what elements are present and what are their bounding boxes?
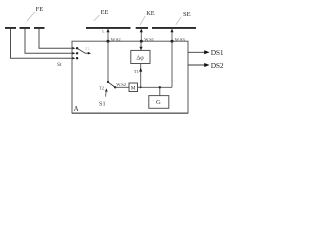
svg-text:DS1: DS1 (211, 48, 224, 57)
svg-text:T2: T2 (99, 85, 105, 90)
svg-text:EE: EE (101, 9, 109, 16)
svg-text:W.S3: W.S3 (175, 37, 186, 42)
svg-text:M: M (131, 86, 136, 92)
svg-text:W.S2: W.S2 (111, 37, 122, 42)
svg-text:DS2: DS2 (211, 61, 224, 70)
svg-text:T1: T1 (134, 69, 140, 74)
svg-text:5.: 5. (102, 29, 105, 34)
svg-text:Δφ: Δφ (136, 55, 144, 61)
svg-text:SE: SE (183, 11, 191, 18)
svg-text:G: G (156, 99, 161, 106)
svg-text:W.S2: W.S2 (116, 82, 127, 87)
svg-text:A: A (74, 105, 79, 113)
svg-text:KE: KE (146, 10, 155, 17)
svg-text:St: St (57, 62, 62, 68)
svg-text:FE: FE (36, 6, 44, 13)
svg-text:S1: S1 (99, 100, 106, 107)
svg-text:ZL: ZL (85, 46, 90, 51)
svg-text:W.S1: W.S1 (144, 37, 155, 42)
